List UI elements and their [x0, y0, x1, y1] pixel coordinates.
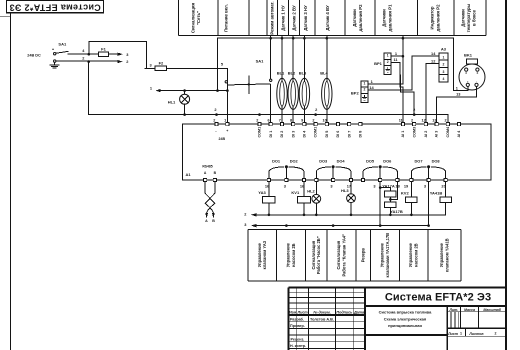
arrow net 1 out — [155, 89, 160, 92]
svg-text:2: 2 — [495, 331, 497, 335]
svg-text:Лист: Лист — [297, 310, 309, 314]
svg-text:AI 2: AI 2 — [424, 131, 428, 138]
svg-text:2: 2 — [445, 118, 447, 122]
junction dots on supply bus — [269, 37, 272, 40]
svg-text:20: 20 — [441, 183, 445, 188]
svg-text:клапаном YA41B: клапаном YA41B — [444, 238, 449, 272]
svg-text:BL4: BL4 — [320, 71, 328, 76]
svg-text:YA17A: YA17A — [382, 183, 395, 188]
wire loop net 4 to F2 input — [89, 42, 147, 69]
controller A1 block — [182, 124, 491, 180]
junction dots lower rails — [268, 214, 271, 217]
svg-text:DI 7: DI 7 — [347, 131, 351, 138]
svg-text:Датчики: Датчики — [352, 9, 357, 27]
svg-text:6: 6 — [267, 118, 269, 122]
relay contact DO1/DO2 — [269, 167, 304, 179]
pin wire numbers (top) — [213, 118, 446, 122]
svg-text:A3: A3 — [441, 47, 447, 52]
svg-text:AI 3: AI 3 — [435, 131, 439, 138]
svg-text:24В: 24В — [219, 137, 226, 141]
svg-text:№ докум.: № докум. — [313, 310, 331, 314]
svg-text:клапаном YA3: клапаном YA3 — [262, 240, 267, 269]
relay coil KV2 — [410, 182, 412, 197]
top function-label box — [178, 0, 486, 35]
svg-text:RS485: RS485 — [202, 164, 212, 168]
svg-text:Датчики: Датчики — [382, 9, 387, 27]
svg-text:DO6: DO6 — [383, 159, 392, 164]
wire DO7/8 common down to net 3 — [428, 182, 430, 226]
fuse F1 — [98, 52, 108, 56]
frame right border — [505, 0, 507, 350]
svg-text:COM1: COM1 — [258, 127, 262, 138]
svg-text:A: A — [205, 219, 208, 223]
wire 18 (DO6 to mid junction) — [390, 182, 397, 200]
wire 2 branch (COM3 to sensors common) — [400, 75, 414, 115]
level sensor BL3 — [299, 78, 309, 109]
level sensor BL1 — [277, 78, 287, 109]
arrow net 3 (lower) — [251, 224, 256, 227]
svg-text:2: 2 — [411, 118, 413, 122]
svg-text:F1: F1 — [101, 47, 106, 52]
svg-text:AI 4: AI 4 — [457, 130, 461, 138]
Lit/Massa/Masshtab header — [447, 308, 502, 336]
svg-text:Работа “Клапан YA4”: Работа “Клапан YA4” — [341, 234, 346, 277]
svg-text:10: 10 — [322, 118, 326, 122]
relay coil KV1 — [303, 182, 305, 197]
svg-text:12: 12 — [421, 118, 425, 122]
svg-text:Разраб.: Разраб. — [290, 317, 304, 321]
svg-text:Режим автомат.: Режим автомат. — [270, 1, 275, 34]
component labels and pin numbers (bottom row) — [244, 183, 446, 227]
svg-text:2: 2 — [387, 60, 389, 64]
svg-text:DO2: DO2 — [290, 159, 299, 164]
rotated document-number box (top-left) — [7, 1, 104, 13]
svg-text:AI 1: AI 1 — [401, 131, 405, 138]
bottom function-label box row — [248, 230, 461, 282]
svg-text:Резерв: Резерв — [360, 248, 365, 263]
svg-text:Система EFTA*2 Э3: Система EFTA*2 Э3 — [385, 292, 491, 304]
svg-text:Датчик 3 НУ: Датчик 3 НУ — [303, 5, 308, 31]
svg-text:Дата: Дата — [353, 310, 364, 314]
title block header texts — [289, 310, 364, 348]
pressure sensor BP2 — [361, 81, 368, 87]
svg-text:2: 2 — [213, 118, 215, 122]
switch SA1 (mode select) — [270, 79, 272, 81]
valve coil YA41B — [445, 182, 447, 197]
svg-text:A1: A1 — [185, 172, 191, 177]
svg-text:BL3: BL3 — [299, 71, 307, 76]
svg-text:Подпись: Подпись — [336, 310, 352, 314]
svg-text:1: 1 — [224, 118, 226, 122]
lamp HL3 — [350, 182, 352, 194]
level sensor BL2 — [288, 78, 298, 109]
svg-text:DO3: DO3 — [319, 159, 328, 164]
wire 1 (bus to BK1) — [453, 38, 467, 90]
svg-text:HL1: HL1 — [168, 100, 176, 105]
svg-text:8: 8 — [290, 118, 292, 122]
svg-text:Сигнализация: Сигнализация — [336, 240, 341, 269]
wire 14 (BP2 to A3) — [368, 56, 439, 90]
labels for sensors and wires (right) — [214, 47, 478, 113]
svg-text:DI 3: DI 3 — [291, 131, 295, 138]
svg-text:давления Р2: давления Р2 — [358, 4, 363, 32]
svg-text:COM3: COM3 — [412, 127, 416, 138]
svg-text:DO8: DO8 — [432, 159, 441, 164]
svg-text:Управление: Управление — [257, 242, 262, 267]
svg-text:Лист: Лист — [447, 332, 459, 336]
svg-text:насосом 2В: насосом 2В — [414, 243, 419, 267]
svg-text:Провер.: Провер. — [290, 324, 305, 328]
svg-text:SA1: SA1 — [58, 42, 67, 47]
svg-text:Схема электрическая: Схема электрическая — [384, 316, 427, 321]
svg-text:Работа “Насос 2Б”: Работа “Насос 2Б” — [316, 236, 321, 274]
svg-text:2: 2 — [256, 118, 258, 122]
svg-text:DI 5: DI 5 — [325, 131, 329, 138]
frame left border — [10, 0, 12, 350]
svg-text:13: 13 — [432, 118, 436, 122]
svg-text:HL2: HL2 — [307, 188, 315, 193]
valve coil YA17B — [385, 202, 396, 208]
ground — [50, 63, 59, 68]
svg-text:COM4: COM4 — [446, 126, 450, 138]
temperature sensor BK1 — [459, 64, 485, 90]
svg-text:9: 9 — [301, 118, 303, 122]
svg-text:Датчик 4 ВУ: Датчик 4 ВУ — [325, 5, 330, 31]
svg-text:температуры: температуры — [466, 3, 471, 32]
wire net 3 (contacts common rail) — [254, 225, 429, 227]
svg-text:Толстов А.В.: Толстов А.В. — [310, 318, 334, 322]
svg-text:DI 8: DI 8 — [359, 131, 363, 138]
svg-text:2: 2 — [312, 118, 314, 122]
svg-text:YA3: YA3 — [258, 190, 266, 195]
svg-text:Управление: Управление — [379, 242, 384, 267]
title block (основная надпись) — [289, 287, 507, 350]
svg-text:2: 2 — [363, 88, 365, 92]
relay contact DO5/DO6 — [363, 167, 397, 179]
wire net 4 (SA1 to F1) — [68, 53, 98, 55]
svg-text:DI 4: DI 4 — [303, 130, 307, 138]
wire into fuse F2 — [145, 67, 155, 69]
svg-text:YA17B: YA17B — [390, 209, 403, 214]
svg-text:в боксе: в боксе — [472, 9, 477, 26]
wire net from F2 to controller plus pin — [167, 68, 228, 123]
svg-text:принципиальная: принципиальная — [388, 323, 422, 328]
svg-text:3: 3 — [442, 70, 444, 74]
svg-text:1: 1 — [363, 82, 365, 86]
svg-text:+: + — [226, 129, 228, 133]
wire net 1 to BP1/BP2 — [368, 35, 403, 84]
wire net 1 (+24V rail) — [158, 90, 228, 92]
svg-text:Индикатор: Индикатор — [430, 6, 435, 29]
svg-text:COM1: COM1 — [314, 127, 318, 138]
svg-text:KV1: KV1 — [291, 190, 300, 195]
controller bottom pin terminals — [204, 178, 448, 181]
relay contact DO3/DO4 — [316, 167, 351, 179]
wire 12 (A3 to AI2) — [426, 64, 439, 124]
svg-text:24В DC: 24В DC — [27, 53, 41, 57]
valve coil YA17A — [380, 188, 390, 192]
svg-text:11: 11 — [399, 118, 403, 122]
RS485 twisted pair — [205, 182, 215, 213]
arrow A down — [205, 213, 208, 219]
junction dots (left power area) — [88, 53, 91, 56]
switch SA1 (main power, top-left) — [54, 53, 56, 55]
svg-text:Сигнализация: Сигнализация — [190, 2, 195, 33]
wire/segment number labels (left area) — [52, 42, 264, 105]
svg-text:клапанами YA17A,17B: клапанами YA17A,17B — [385, 233, 390, 278]
wire net 2 (lower common rail) — [254, 214, 446, 216]
document subtitle — [379, 310, 432, 328]
svg-text:Система впрыска топлива: Система впрыска топлива — [379, 310, 432, 315]
svg-text:BK1: BK1 — [464, 53, 473, 58]
svg-text:Масса: Масса — [464, 308, 475, 312]
arrow net 2 out — [117, 60, 122, 63]
svg-text:BP1: BP1 — [374, 61, 383, 66]
svg-text:7: 7 — [279, 118, 281, 122]
svg-text:Датчик 2 ВУ: Датчик 2 ВУ — [292, 5, 297, 31]
svg-text:DI 1: DI 1 — [269, 131, 273, 138]
svg-text:давления Р2: давления Р2 — [435, 4, 440, 32]
svg-text:DI 6: DI 6 — [336, 131, 340, 138]
wire SA1 mode to DI1 — [270, 85, 272, 124]
svg-text:BL1: BL1 — [277, 71, 285, 76]
svg-text:Питание вкл.: Питание вкл. — [224, 4, 229, 32]
pressure indicator A3 — [439, 53, 448, 60]
svg-text:Управление: Управление — [286, 242, 291, 267]
svg-text:SA1: SA1 — [256, 59, 265, 64]
svg-text:2: 2 — [442, 63, 444, 67]
svg-text:DO1: DO1 — [272, 159, 281, 164]
level sensor BL4 — [322, 78, 332, 109]
controller top pin terminals — [215, 123, 461, 126]
wire DO5/6 common down to net 3 — [379, 182, 381, 226]
svg-text:BP2: BP2 — [351, 91, 360, 96]
svg-text:DI 2: DI 2 — [280, 131, 284, 138]
svg-text:-: - — [476, 81, 477, 84]
svg-text:давления Р1: давления Р1 — [387, 4, 392, 32]
wire 13 (BK1 to AI3) — [437, 87, 477, 124]
arrow net 2 (lower) — [251, 213, 256, 216]
pressure sensor BP1 — [384, 53, 391, 59]
wire 11 (BP1 to AI1) — [391, 62, 403, 123]
arrow B down — [212, 213, 215, 219]
svg-text:насосом 2Б: насосом 2Б — [291, 243, 296, 267]
svg-text:4: 4 — [442, 77, 444, 81]
svg-text:B: B — [212, 219, 215, 223]
lamp HL1 — [184, 91, 186, 95]
svg-text:Сигнализация: Сигнализация — [311, 240, 316, 269]
svg-text:F2: F2 — [159, 61, 164, 66]
relay contact DO7/DO8 — [411, 167, 445, 179]
junction dots on common rail — [183, 113, 186, 116]
svg-text:Датчики: Датчики — [461, 9, 466, 27]
svg-text:HL3: HL3 — [341, 188, 349, 193]
svg-text:Листов: Листов — [468, 332, 484, 336]
fuse F2 — [155, 66, 166, 70]
wire net 5 (bus feed) — [217, 38, 219, 90]
junction dot net1 at BP1 — [402, 55, 405, 58]
svg-text:DO4: DO4 — [337, 159, 346, 164]
svg-text:KV2: KV2 — [401, 191, 410, 196]
svg-text:"Сеть": "Сеть" — [196, 11, 201, 25]
sensor labels BL1-BL4 — [277, 71, 329, 76]
svg-text:1: 1 — [460, 331, 462, 335]
svg-text:Система EFTA*2 Э3: Система EFTA*2 Э3 — [9, 3, 101, 13]
svg-text:DO5: DO5 — [366, 159, 375, 164]
svg-text:Масштаб: Масштаб — [483, 308, 501, 312]
svg-text:Датчик 1 НУ: Датчик 1 НУ — [281, 5, 286, 31]
svg-text:Реценз.: Реценз. — [290, 337, 304, 341]
svg-text:Лит.: Лит. — [448, 308, 458, 312]
svg-text:1: 1 — [442, 55, 444, 59]
svg-text:Управление: Управление — [408, 242, 413, 267]
valve coil YA3 — [268, 182, 270, 197]
pin names inside controller — [215, 126, 461, 138]
svg-text:BL2: BL2 — [288, 71, 296, 76]
svg-text:1: 1 — [387, 54, 389, 58]
top supply bus (net 5/1) — [218, 37, 454, 39]
wire net 2 (common rail, upper) — [89, 62, 448, 124]
svg-text:Управление: Управление — [439, 242, 444, 267]
svg-text:Н. контр.: Н. контр. — [290, 344, 306, 348]
wire net 2 (battery minus) — [56, 60, 118, 62]
column label: Сигнализация "Сеть" — [190, 1, 476, 34]
svg-text:Изм: Изм — [289, 310, 296, 314]
arrow net 3 out — [117, 53, 122, 56]
svg-text:YA41B: YA41B — [430, 191, 443, 196]
svg-text:DO7: DO7 — [415, 159, 423, 164]
lamp HL2 — [315, 182, 317, 195]
